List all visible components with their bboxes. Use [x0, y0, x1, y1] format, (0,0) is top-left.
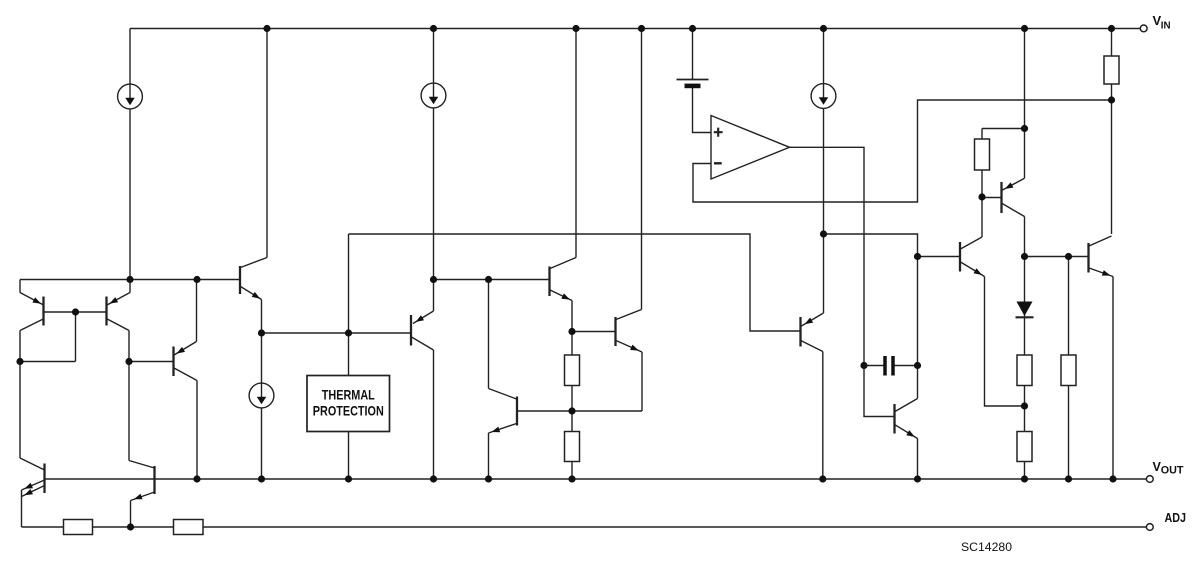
wire node mid rail	[434, 279, 550, 281]
wire Q4 collector riser	[266, 29, 268, 258]
svg-text:OUT: OUT	[1161, 464, 1184, 476]
transistor Q10	[960, 237, 985, 277]
wire Q12 emitter drop	[1112, 277, 1114, 480]
svg-text:IN: IN	[1161, 21, 1171, 32]
junction at 197,479	[193, 475, 200, 482]
wire Q10 emitter leg	[985, 277, 1025, 407]
resistor R6	[1017, 432, 1032, 462]
resistor R5	[1017, 355, 1032, 386]
wire R7 branch	[1068, 257, 1070, 480]
wire node base line left	[262, 332, 412, 334]
wire Q9 collector stub	[917, 366, 919, 399]
wire Q15 emitter riser	[823, 234, 825, 313]
wire current source I1 branch	[129, 29, 131, 280]
junction at 864,365.5	[860, 362, 867, 369]
wire compensation node drop	[917, 257, 919, 366]
resistor R1	[1104, 56, 1119, 84]
junction at 130.5,527	[127, 523, 134, 530]
wire zener chain	[1024, 217, 1026, 480]
wire Q10 collector riser	[981, 129, 983, 238]
junction at 433.5,479	[430, 475, 437, 482]
wire Q11 base stub	[982, 197, 1002, 199]
transistor Q4	[240, 258, 267, 300]
junction at 75.5,312	[72, 308, 79, 315]
wire bias line left	[349, 234, 801, 331]
transistor Q12	[1089, 236, 1114, 277]
wire Q7 emitter leg	[517, 352, 642, 411]
junction at 982,197	[978, 193, 985, 200]
junction at 20,361.5	[16, 358, 23, 365]
junction at 1024.5,256.5	[1021, 253, 1028, 260]
wire Q6 collector riser	[575, 29, 577, 258]
terminal V_OUT	[1146, 476, 1153, 483]
label ADJ	[1165, 510, 1187, 525]
transistor Q11	[1002, 178, 1025, 216]
wire ADJ rail	[22, 526, 1147, 528]
junction at 572,479	[568, 475, 575, 482]
wire capacitor right lead	[893, 365, 918, 367]
diode D1	[1016, 302, 1034, 318]
junction at 692.5,28.5	[689, 25, 696, 32]
label V_IN	[1153, 13, 1171, 32]
transistor Q8	[489, 389, 518, 434]
wire Q7 collector riser	[641, 29, 643, 310]
junction at 576,28.5	[572, 25, 579, 32]
wire V_OUT rail	[45, 478, 1147, 480]
transistor Q9	[895, 399, 918, 439]
junction at 1068.5,479	[1065, 475, 1072, 482]
wire op-amp inverting input feedback	[693, 100, 1112, 202]
junction at 823.5,234	[820, 230, 827, 237]
wire battery branch	[693, 29, 712, 133]
wire node to Q3 base	[129, 361, 174, 363]
wire op-amp output	[790, 147, 865, 365]
wire Q9 emitter drop	[917, 439, 919, 480]
junction at 917.5,256.5	[914, 253, 921, 260]
resistor R3	[565, 355, 580, 386]
wire thermal protection top	[348, 234, 350, 376]
svg-text:SC14280: SC14280	[961, 540, 1012, 554]
resistor R7	[1061, 355, 1076, 386]
junction at 917.5,479	[914, 475, 921, 482]
junction at 823.5,28.5	[820, 25, 827, 32]
wire resistor chain R3 R4	[571, 332, 573, 480]
wire Q5 collector drop	[433, 350, 435, 479]
junction at 348.5,479	[345, 475, 352, 482]
wire Q1 collector drop	[19, 331, 21, 459]
junction at 433.5,279.5	[430, 276, 437, 283]
resistor R8	[64, 520, 93, 535]
transistor Q14	[129, 461, 155, 501]
label V_OUT	[1153, 460, 1184, 476]
transistor Q6	[550, 258, 577, 301]
transistor Q3	[174, 342, 198, 381]
terminal ADJ	[1146, 524, 1153, 531]
junction at 1024.5,479	[1021, 475, 1028, 482]
wire Q3 emitter riser	[196, 280, 198, 342]
wire node top chain	[1024, 29, 1026, 179]
wire capacitor left lead	[864, 365, 885, 367]
wire Q6 emitter stub	[571, 301, 573, 332]
terminal V_IN	[1140, 25, 1147, 32]
junction at 572,411	[568, 407, 575, 414]
current source I4	[249, 383, 274, 408]
wire Q3 collector drop	[196, 381, 198, 480]
wire current source I3 branch	[823, 29, 825, 235]
wire R1 branch	[1111, 29, 1113, 235]
wire Q8 collector riser	[488, 280, 490, 389]
wire Q15 collector drop	[822, 352, 824, 480]
junction at 1024.5,128.5	[1021, 125, 1028, 132]
wire Q5 emitter stub	[433, 280, 435, 312]
junction at 1068.5,256.5	[1065, 253, 1072, 260]
capacitor C1	[885, 356, 893, 376]
junction at 1024.5,28.5	[1021, 25, 1028, 32]
resistor R9	[174, 520, 204, 535]
svg-text:ADJ: ADJ	[1165, 510, 1187, 525]
junction at 1111.5,28.5	[1108, 25, 1115, 32]
transistor Q7	[616, 310, 643, 353]
junction at 261.5,333	[258, 329, 265, 336]
junction at 572,331.5	[568, 328, 575, 335]
thermal protection block	[307, 376, 390, 432]
current source I3	[811, 84, 836, 109]
wire V_IN top rail	[130, 28, 1140, 30]
current source I1	[118, 84, 143, 109]
wire Q13 emitter drop	[21, 490, 23, 527]
wire current source I2 branch	[433, 29, 435, 280]
transistor Q15	[801, 313, 824, 352]
junction at 1024.5,406	[1021, 402, 1028, 409]
junction at 261.5,479	[258, 475, 265, 482]
battery reference V1	[677, 80, 709, 89]
transistor Q2	[107, 280, 131, 331]
op-amp U1	[711, 116, 790, 180]
wire bias line right	[824, 234, 961, 257]
junction at 348.5,333	[345, 329, 352, 336]
junction at 1111.5,100	[1108, 96, 1115, 103]
resistor R4	[565, 432, 580, 462]
current source I2	[421, 83, 446, 108]
junction at 267,28.5	[263, 25, 270, 32]
junction at 433.5,28.5	[430, 25, 437, 32]
wire node Q6 to Q7 base	[572, 331, 616, 333]
label SC14280	[961, 540, 1012, 554]
wire node drive line	[1025, 256, 1089, 258]
transistor Q5	[411, 311, 434, 350]
transistor Q1	[20, 280, 44, 331]
junction at 129,361.5	[125, 358, 132, 365]
wire thermal protection bottom	[348, 432, 350, 480]
junction at 641.5,28.5	[638, 25, 645, 32]
wire Q14 emitter drop	[130, 501, 132, 528]
wire Q4 emitter to I4 to VOUT	[261, 300, 263, 480]
junction at 917.5,365.5	[914, 362, 921, 369]
wire Q9 base leg	[864, 366, 895, 417]
svg-text:THERMAL: THERMAL	[322, 388, 375, 403]
junction at 197,279.5	[193, 276, 200, 283]
junction at 822.8,479	[819, 475, 826, 482]
junction at 130,279.5	[126, 276, 133, 283]
wire Q2 collector drop	[128, 331, 130, 461]
junction at 1113,479	[1109, 475, 1116, 482]
wire node left rail	[20, 279, 240, 281]
wire R2 top link	[982, 128, 1025, 130]
svg-text:PROTECTION: PROTECTION	[313, 403, 384, 418]
junction at 488.5,279.5	[485, 276, 492, 283]
junction at 488.5,479	[485, 475, 492, 482]
transistor Q13	[20, 458, 45, 497]
wire mirror base link	[20, 312, 107, 362]
resistor R2	[975, 139, 990, 170]
wire Q8 emitter drop	[488, 433, 490, 479]
